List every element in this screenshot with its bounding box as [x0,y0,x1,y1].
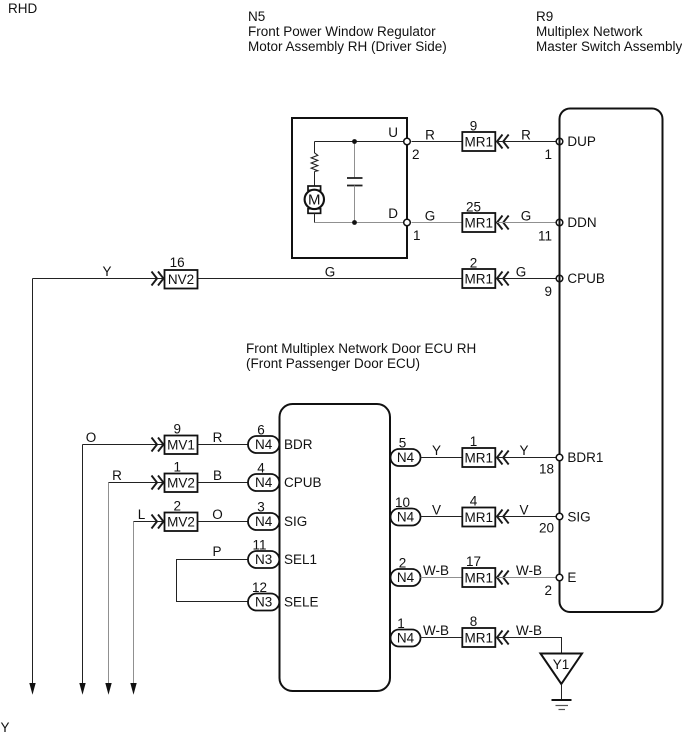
wire motor top (U) [315,141,408,143]
wire row BDR left [83,444,165,446]
svg-text:MV1: MV1 [167,437,195,452]
svg-text:SEL1: SEL1 [284,552,317,567]
wire NV2 to MR1 [198,278,463,280]
svg-text:18: 18 [539,462,554,477]
wire O vertical [82,445,84,684]
cavity N4 row BDR [248,436,279,453]
svg-text:1: 1 [544,147,552,162]
junction dot bottom [352,220,357,225]
svg-text:1: 1 [173,460,181,475]
wire motor bottom (D) [315,222,408,224]
pin E circle [556,574,563,581]
svg-text:9: 9 [544,284,552,299]
chevrons MV1 [152,438,158,452]
svg-text:G: G [516,265,527,280]
svg-text:2: 2 [173,499,181,514]
cavity N3 row SELE [248,594,279,611]
connector MR1 row BDR1 [462,448,495,467]
wire MR1 to SIG pin [497,516,556,518]
svg-text:2: 2 [544,583,552,598]
svg-text:N3: N3 [255,595,272,610]
svg-text:MR1: MR1 [465,215,494,230]
svg-text:1: 1 [413,228,421,243]
wire motor to bottom [314,213,316,222]
svg-text:Y: Y [432,443,441,458]
wire MV2 to N4 [198,521,249,523]
svg-text:W-B: W-B [516,623,542,638]
svg-text:N4: N4 [397,450,415,465]
connector MR1 row CPUB [462,269,495,288]
chevrons MV2b [152,515,158,529]
svg-text:RHD: RHD [8,1,37,16]
pin BDR1 circle [556,454,563,461]
svg-text:NV2: NV2 [168,272,194,287]
svg-text:R9: R9 [536,9,553,24]
pin DDN circle [556,219,563,226]
connector NV2 [165,270,198,289]
wire row CPUB-ecu left [109,482,165,484]
svg-text:E: E [567,570,576,585]
svg-text:SIG: SIG [284,514,307,529]
svg-text:MR1: MR1 [465,450,494,465]
motor assembly box N5 [292,118,407,258]
junction dot top [352,139,357,144]
wire N4 to MR1 row SIG [421,516,463,518]
svg-text:MR1: MR1 [465,630,494,645]
resistor (inside motor box) [311,153,318,172]
label Front Multiplex Network Door ECU RH [246,341,476,371]
connector MR1 row DDN [462,213,495,232]
cavity N4 row SIG [248,513,279,530]
wire MR1 to E pin [497,577,556,579]
svg-text:2: 2 [412,147,420,162]
svg-text:N4: N4 [255,475,273,490]
svg-text:17: 17 [466,554,481,569]
connector MV1 [165,436,198,455]
svg-text:1: 1 [470,434,478,449]
cavity N4 row E [391,569,421,586]
svg-text:N5: N5 [248,9,265,24]
wire resistor to motor [314,172,316,187]
connector MV2 (row CPUB) [165,474,198,493]
wire MR1 to Y1 [497,638,562,654]
pin SIG circle [556,513,563,520]
svg-text:SIG: SIG [567,510,590,525]
svg-text:R: R [213,430,223,445]
connector MR1 row ground [462,628,495,647]
wire MR1 to BDR1 pin [497,457,556,459]
svg-text:D: D [388,206,398,221]
svg-text:BDR1: BDR1 [567,450,603,465]
arrow Y [29,683,35,695]
svg-text:N4: N4 [255,514,273,529]
svg-text:R: R [425,128,435,143]
svg-text:8: 8 [470,614,478,629]
connector MR1 row SIG [462,508,495,527]
svg-text:R: R [112,468,122,483]
arrow L [130,683,136,695]
pin CPUB circle [556,275,563,282]
wire row DDN: pin D to MR1 [412,222,463,224]
connector MV2 (row SIG) [165,513,198,532]
wire MR1 to DDN pin [497,222,556,224]
svg-text:BDR: BDR [284,437,313,452]
wire MR1 to CPUB pin [497,278,556,280]
svg-text:SELE: SELE [284,595,319,610]
svg-text:Front Multiplex Network Door E: Front Multiplex Network Door ECU RH [246,341,476,356]
ground symbol [552,700,572,710]
svg-text:MR1: MR1 [465,570,494,585]
chevrons row DDN [497,216,503,230]
connector MR1 row DUP [462,132,495,151]
motor M brush bottom [308,209,321,214]
svg-text:N4: N4 [255,437,273,452]
chevrons row BDR1 [497,451,503,465]
master switch assembly box R9 [560,109,663,613]
label R9 header [536,9,682,54]
svg-text:W-B: W-B [423,563,449,578]
ECU box [280,404,391,691]
wire N4 to MR1 row ground [421,637,463,639]
wire Y1 to ground [561,684,563,700]
svg-text:Multiplex Network: Multiplex Network [536,24,643,39]
cavity N4 row CPUB [248,474,279,491]
svg-text:DUP: DUP [567,134,596,149]
wire L vertical [133,522,135,684]
svg-text:N4: N4 [397,510,415,525]
wire row CPUB left segment [33,278,165,280]
svg-text:P: P [212,544,221,559]
svg-text:R: R [521,128,531,143]
cavity N3 row SEL1 [248,551,279,568]
svg-text:MV2: MV2 [167,475,195,490]
svg-text:M: M [308,192,321,209]
capacitor branch wire bottom [354,186,356,223]
svg-text:20: 20 [539,521,554,536]
wire MR1 to DUP pin [497,141,556,143]
svg-text:V: V [432,503,441,518]
svg-text:(Front Passenger Door ECU): (Front Passenger Door ECU) [246,356,420,371]
svg-text:U: U [388,125,398,140]
motor M brush top [308,186,321,190]
chevrons row DUP [497,135,503,149]
svg-text:N4: N4 [397,570,415,585]
svg-text:Y: Y [102,264,111,279]
svg-text:CPUB: CPUB [567,271,605,286]
svg-text:9: 9 [173,422,181,437]
svg-text:Y: Y [1,720,10,732]
svg-text:N3: N3 [255,552,272,567]
wire SEL1 loop [177,560,249,602]
wire N4 to MR1 row BDR1 [421,457,463,459]
label N5 header [248,9,447,54]
svg-text:Y: Y [519,443,528,458]
chevrons NV2 (pointing right) [152,272,158,286]
svg-text:V: V [519,503,528,518]
pin D circle [404,219,411,226]
svg-text:MR1: MR1 [465,271,494,286]
svg-text:B: B [213,468,222,483]
svg-text:Master Switch Assembly: Master Switch Assembly [536,39,682,54]
svg-text:N4: N4 [397,631,415,646]
chevrons MV2a [152,476,158,490]
cavity N4 row ground [391,630,421,647]
svg-text:L: L [138,507,146,522]
pin U circle [404,138,411,145]
chevrons row SIG [497,510,503,524]
capacitor branch wire top [354,142,356,179]
wire N4 to MR1 row E [421,577,463,579]
capacitor plates [347,177,363,179]
svg-text:CPUB: CPUB [284,475,322,490]
svg-text:G: G [521,209,532,224]
svg-text:16: 16 [170,255,185,270]
wire row SIG-ecu left [134,521,165,523]
chevrons row ground [497,631,503,645]
svg-text:MR1: MR1 [465,510,494,525]
connector MR1 row E [462,568,495,587]
arrow O [79,683,85,695]
svg-text:W-B: W-B [516,563,542,578]
motor M circle [305,190,324,209]
svg-text:Y1: Y1 [553,657,570,672]
svg-text:O: O [212,507,223,522]
wire R vertical [108,483,110,684]
svg-text:4: 4 [470,494,478,509]
pin DUP circle [556,138,563,145]
svg-text:G: G [325,265,336,280]
cavity N4 row BDR1 [391,449,421,466]
svg-text:MR1: MR1 [465,134,494,149]
svg-text:DDN: DDN [567,215,596,230]
noise filter Y1 triangle [541,654,583,685]
svg-text:11: 11 [538,229,552,244]
svg-text:W-B: W-B [423,623,449,638]
svg-text:G: G [425,209,436,224]
wire row DUP: pin U to MR1 [412,141,463,143]
svg-text:MV2: MV2 [167,514,195,529]
wire MV2 to N4 [198,482,249,484]
chevrons row E [497,571,503,585]
chevrons row CPUB [497,272,503,286]
svg-text:Front Power Window Regulator: Front Power Window Regulator [248,24,436,39]
wire left branch top [314,142,316,154]
wire Y vertical (left) [32,279,34,684]
svg-text:Motor Assembly RH (Driver Side: Motor Assembly RH (Driver Side) [248,39,447,54]
wire MV1 to N4 [198,444,249,446]
arrow R [105,683,111,695]
cavity N4 row SIG-right [391,509,421,526]
svg-text:O: O [86,430,97,445]
